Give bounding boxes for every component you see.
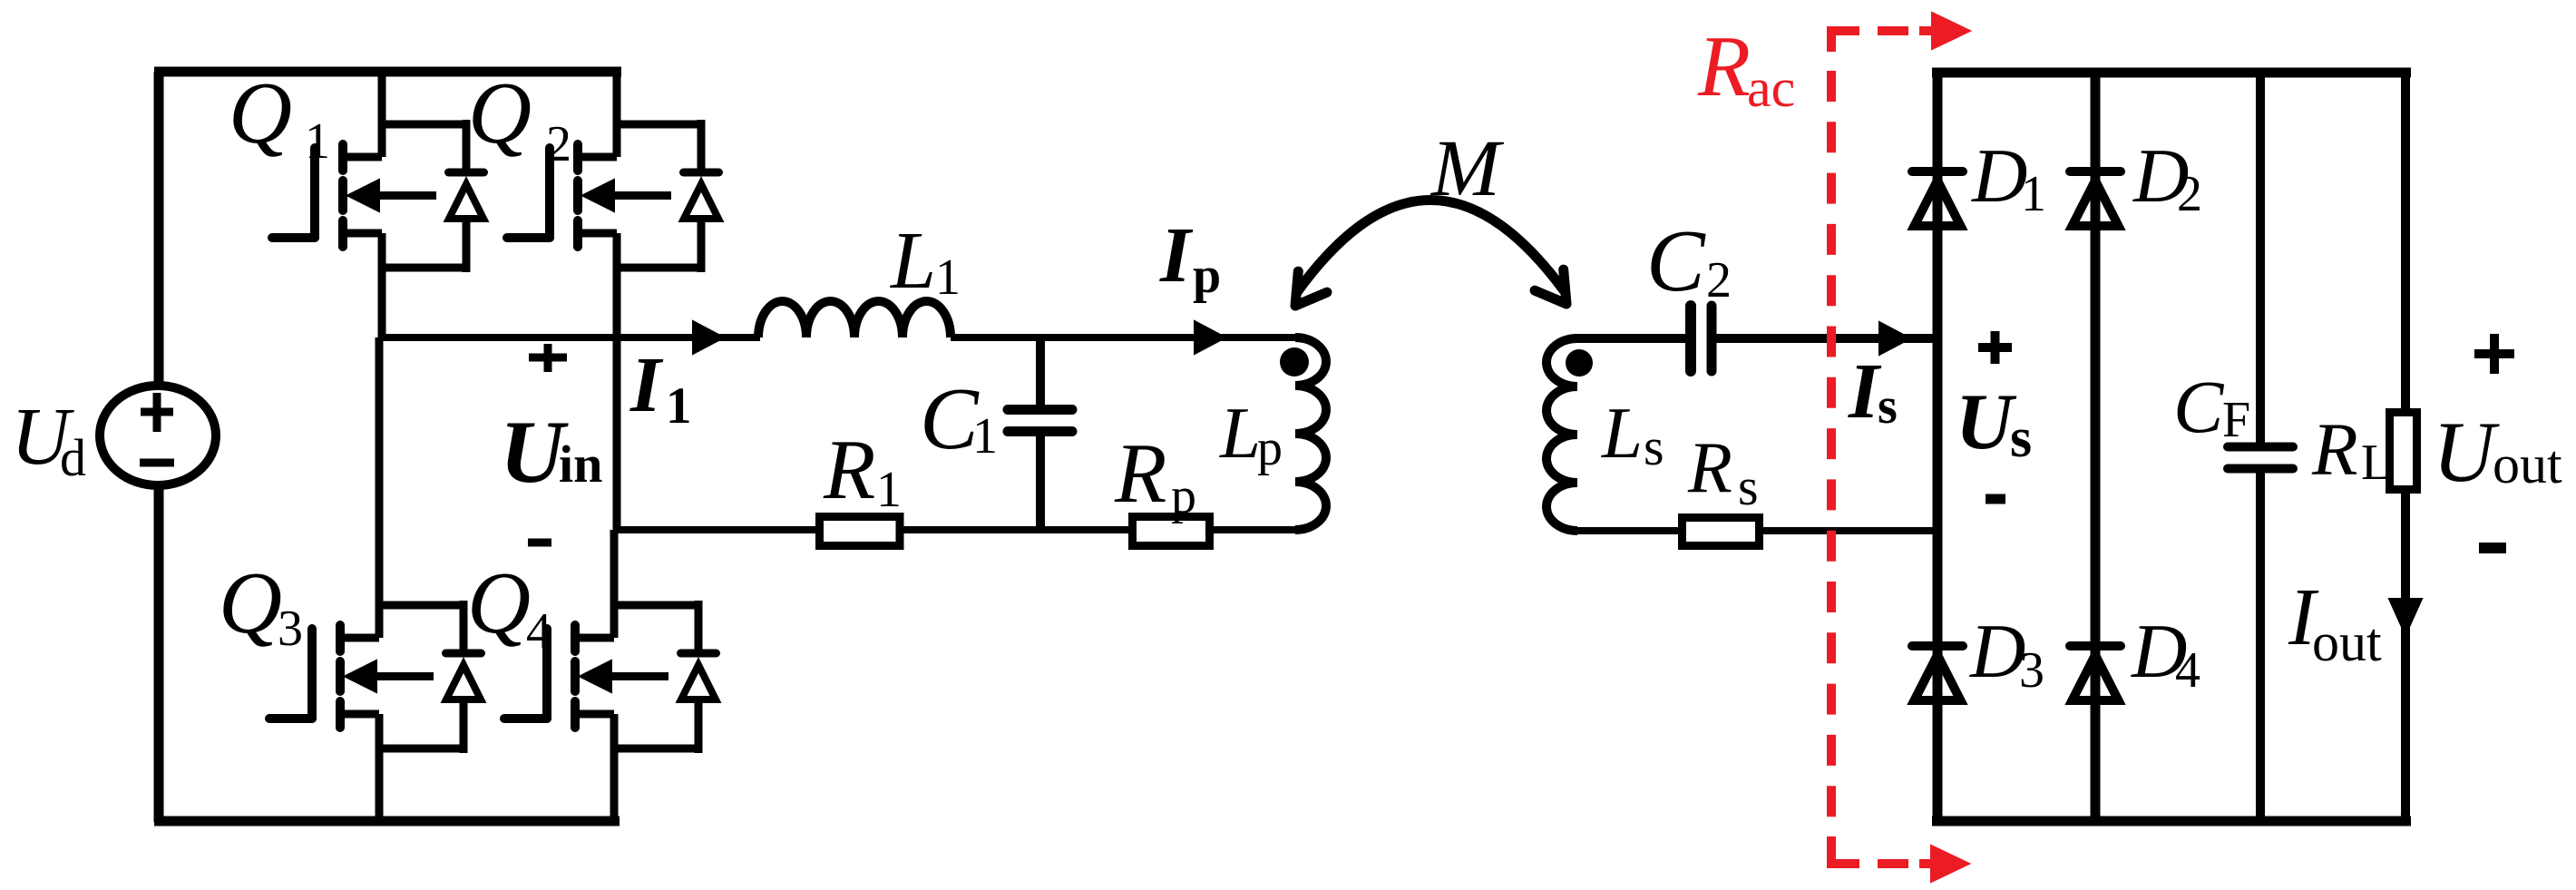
wire transistor Q1 source vertical bbox=[378, 233, 386, 337]
transistor Q4 channel dash drain bbox=[571, 625, 580, 651]
resistor RL bbox=[2390, 413, 2417, 490]
transistor Q1 body arrow bbox=[347, 180, 379, 211]
wire CF leg lower bbox=[2256, 471, 2265, 821]
svg-text:1: 1 bbox=[2021, 166, 2046, 222]
svg-text:1: 1 bbox=[305, 113, 330, 170]
svg-text:p: p bbox=[1257, 420, 1283, 476]
svg-text:C: C bbox=[920, 370, 980, 467]
svg-text:s: s bbox=[1738, 457, 1759, 516]
inductor L1 bbox=[758, 301, 951, 337]
wire transistor Q2 body-diode upper lead bbox=[698, 120, 706, 172]
wire transistor Q1 body-diode lower lead bbox=[463, 217, 471, 272]
transistor Q4 gate bar bbox=[542, 629, 551, 719]
Rac dashed boundary vertical bbox=[1827, 71, 1836, 836]
svg-text:1: 1 bbox=[935, 249, 961, 306]
transistor Q2 channel dash body bbox=[573, 181, 582, 210]
Uout minus sign bbox=[2479, 543, 2506, 553]
Ls polarity dot bbox=[1566, 349, 1593, 377]
transistor Q1 channel dash source bbox=[338, 220, 347, 247]
svg-text:D: D bbox=[1969, 609, 2025, 694]
wire transistor Q1 drain lead bbox=[339, 153, 382, 161]
wire CF leg upper bbox=[2256, 73, 2265, 445]
svg-text:R: R bbox=[823, 423, 875, 517]
svg-text:U: U bbox=[2433, 404, 2500, 500]
svg-text:U: U bbox=[1956, 378, 2017, 466]
Uin plus sign bbox=[529, 354, 567, 362]
wire rectifier leg 2 (D2/D4) bbox=[2091, 73, 2101, 821]
svg-text:F: F bbox=[2222, 392, 2250, 448]
svg-text:I: I bbox=[629, 340, 664, 428]
resistor R1 bbox=[820, 517, 901, 546]
diode D3 cathode bar bbox=[1912, 641, 1963, 650]
wire transistor Q4 drain lead bbox=[571, 634, 614, 642]
transistor Q3 body arrow bbox=[345, 660, 376, 692]
wire left vertical upper (Ud to top rail) bbox=[154, 72, 164, 390]
transistor Q2 body diode cathode bar bbox=[684, 169, 719, 177]
wire transistor Q4 body-diode upper lead bbox=[695, 601, 703, 653]
resistor Rs bbox=[1683, 518, 1760, 546]
transistor Q3 body diode cathode bar bbox=[446, 650, 482, 658]
wire transistor Q4 body-diode loop top bbox=[614, 601, 698, 610]
svg-text:out: out bbox=[2493, 435, 2562, 494]
svg-text:s: s bbox=[1878, 378, 1898, 435]
wire transistor Q2 body-diode lower lead bbox=[698, 217, 706, 272]
Lp polarity dot bbox=[1280, 347, 1309, 377]
wire rectifier bottom rail bbox=[1932, 817, 2411, 826]
wire mid rail left segment (Uin+ node to L1) bbox=[382, 334, 760, 341]
wire transistor Q2 body-diode loop bottom bbox=[617, 264, 701, 272]
transistor Q4 body arrow bbox=[580, 660, 611, 692]
resistor Rp bbox=[1133, 517, 1210, 546]
svg-text:d: d bbox=[60, 428, 86, 487]
wire transistor Q4 source lead bbox=[571, 710, 614, 719]
Us minus sign bbox=[1986, 494, 2005, 504]
wire secondary top rail left (Ls to C2) bbox=[1577, 334, 1687, 343]
diode D2 triangle bbox=[2073, 181, 2119, 226]
wire transistor Q4 source vertical bbox=[610, 714, 619, 821]
svg-text:Q: Q bbox=[468, 64, 532, 161]
wire rectifier top rail bbox=[1932, 68, 2411, 78]
wire transistor Q1 body-diode loop bottom bbox=[382, 264, 466, 272]
svg-text:in: in bbox=[559, 435, 602, 494]
svg-text:p: p bbox=[1193, 248, 1221, 304]
svg-text:C: C bbox=[2173, 365, 2225, 448]
svg-text:3: 3 bbox=[2019, 642, 2044, 699]
wire RL leg bbox=[2401, 73, 2410, 821]
wire transistor Q4 body-diode loop bottom bbox=[614, 745, 698, 753]
mutual arc left arrowhead bbox=[1295, 271, 1327, 306]
svg-text:R: R bbox=[1114, 426, 1166, 521]
transistor Q4 body diode cathode bar bbox=[681, 650, 717, 658]
Rac dashed boundary bottom arrow bbox=[1878, 859, 1908, 868]
wire transistor Q4 body-diode lower lead bbox=[695, 698, 703, 753]
diode D1 cathode bar bbox=[1912, 167, 1963, 176]
svg-text:Q: Q bbox=[229, 64, 292, 161]
transistor Q1 channel dash drain bbox=[338, 144, 347, 171]
diode D4 cathode bar bbox=[2070, 641, 2121, 650]
capacitor C1 bbox=[1008, 405, 1072, 415]
capacitor CF bbox=[2228, 443, 2293, 452]
wire transistor Q1 drain vertical bbox=[378, 72, 386, 157]
transistor Q3 gate bar bbox=[307, 629, 317, 719]
wire transistor Q3 body-diode upper lead bbox=[460, 601, 468, 653]
diode D2 cathode bar bbox=[2070, 167, 2121, 176]
transistor Q4 body diode triangle bbox=[681, 665, 716, 699]
wire transistor Q2 drain lead bbox=[574, 153, 617, 161]
svg-text:4: 4 bbox=[526, 603, 551, 660]
wire transistor Q3 body-diode lower lead bbox=[460, 698, 468, 753]
wire transistor Q3 source vertical bbox=[376, 714, 384, 821]
wire transistor Q2 source vertical bbox=[613, 233, 621, 530]
transistor Q3 body diode triangle bbox=[446, 665, 481, 699]
svg-text:L: L bbox=[889, 216, 936, 306]
svg-text:1: 1 bbox=[666, 377, 692, 435]
transistor Q3 channel dash source bbox=[336, 701, 345, 728]
wire secondary top rail right (C2 to rectifier) bbox=[1715, 334, 1937, 343]
wire transistor Q2 drain vertical bbox=[613, 72, 621, 157]
transistor Q2 channel dash drain bbox=[573, 144, 582, 171]
svg-text:2: 2 bbox=[2177, 166, 2202, 222]
svg-text:3: 3 bbox=[278, 601, 303, 657]
Ud minus sign bbox=[140, 459, 174, 467]
svg-text:C: C bbox=[1646, 212, 1706, 309]
svg-text:Q: Q bbox=[467, 554, 531, 651]
arrow Is current bbox=[1879, 322, 1910, 355]
wire transistor Q1 source lead bbox=[339, 230, 382, 238]
transistor Q1 body diode cathode bar bbox=[449, 169, 484, 177]
capacitor C2 bbox=[1685, 306, 1696, 371]
transistor Q4 channel dash source bbox=[571, 701, 580, 728]
transistor Q3 channel dash drain bbox=[336, 625, 345, 651]
Rac dashed boundary top corner bbox=[1831, 31, 1859, 52]
transistor Q1 gate bar bbox=[310, 148, 319, 238]
svg-text:R: R bbox=[1687, 428, 1732, 508]
svg-text:2: 2 bbox=[546, 116, 571, 172]
Ud plus sign bbox=[141, 408, 173, 416]
Uout plus sign bbox=[2474, 349, 2514, 358]
svg-text:M: M bbox=[1429, 124, 1505, 213]
svg-text:out: out bbox=[2312, 612, 2382, 672]
inductor Lp coil bbox=[1295, 337, 1326, 530]
Uin minus sign bbox=[528, 539, 551, 547]
transistor Q1 body diode triangle bbox=[449, 184, 483, 219]
wire bottom rail (inverter) bbox=[154, 817, 620, 826]
wire C1 upper stem bbox=[1036, 337, 1045, 406]
wire transistor Q2 body-diode loop top bbox=[617, 121, 701, 129]
wire C1 lower stem bbox=[1036, 435, 1045, 530]
svg-text:R: R bbox=[2311, 407, 2358, 491]
diode D3 triangle bbox=[1915, 655, 1961, 700]
wire transistor Q4 drain vertical bbox=[610, 530, 619, 638]
svg-text:D: D bbox=[1971, 133, 2027, 219]
wire transistor Q3 gate lead bbox=[269, 714, 312, 723]
wire transistor Q1 gate lead bbox=[272, 233, 315, 242]
transistor Q3 channel dash body bbox=[336, 661, 345, 691]
wire transistor Q4 gate lead bbox=[504, 714, 547, 723]
transistor Q2 body arrow bbox=[582, 180, 614, 211]
inductor Ls coil bbox=[1547, 338, 1577, 531]
mutual arc right arrowhead bbox=[1535, 269, 1566, 304]
wire transistor Q2 source lead bbox=[574, 230, 617, 238]
wire transistor Q2 gate lead bbox=[507, 233, 550, 242]
diode D4 triangle bbox=[2073, 655, 2119, 700]
svg-text:4: 4 bbox=[2175, 642, 2200, 699]
Us plus sign bbox=[1978, 343, 2012, 352]
wire transistor Q1 body-diode upper lead bbox=[463, 120, 471, 172]
svg-text:s: s bbox=[1644, 417, 1664, 476]
wire mid rail right segment (L1 to Lp) bbox=[951, 334, 1295, 341]
wire top rail (inverter) bbox=[154, 67, 621, 77]
wire lower rail (Uin- node to Lp bottom) bbox=[616, 526, 1295, 533]
svg-text:L: L bbox=[1219, 392, 1261, 474]
transistor Q2 body diode triangle bbox=[684, 184, 718, 219]
svg-text:2: 2 bbox=[1706, 252, 1732, 308]
wire transistor Q3 body-diode loop top bbox=[379, 601, 463, 610]
wire secondary bottom rail (Ls to rectifier) bbox=[1577, 527, 1937, 534]
Rac dashed boundary top arrow bbox=[1878, 26, 1908, 35]
mutual coupling arc M bbox=[1297, 200, 1564, 292]
svg-text:R: R bbox=[1697, 18, 1751, 114]
wire transistor Q3 body-diode loop bottom bbox=[379, 745, 463, 753]
voltage source Ud circle bbox=[100, 386, 216, 485]
svg-text:s: s bbox=[2010, 407, 2032, 469]
svg-text:ac: ac bbox=[1747, 58, 1795, 118]
transistor Q4 channel dash body bbox=[571, 661, 580, 691]
transistor Q2 channel dash source bbox=[573, 220, 582, 247]
wire transistor Q3 drain lead bbox=[337, 634, 379, 642]
svg-text:I: I bbox=[1159, 210, 1194, 298]
diode D1 triangle bbox=[1915, 181, 1961, 226]
svg-text:L: L bbox=[2361, 435, 2392, 491]
wire transistor Q3 drain vertical bbox=[376, 337, 384, 638]
wire left vertical lower (Ud to bottom rail) bbox=[154, 481, 164, 822]
svg-text:1: 1 bbox=[972, 408, 998, 465]
wire transistor Q1 body-diode loop top bbox=[382, 121, 466, 129]
svg-text:L: L bbox=[1601, 392, 1643, 474]
wire transistor Q3 source lead bbox=[337, 710, 379, 719]
svg-text:Q: Q bbox=[219, 554, 282, 651]
transistor Q2 gate bar bbox=[545, 148, 554, 238]
arrow I1 current bbox=[693, 321, 724, 354]
svg-text:p: p bbox=[1171, 468, 1196, 524]
transistor Q1 channel dash body bbox=[338, 181, 347, 210]
svg-text:1: 1 bbox=[876, 462, 902, 518]
arrow Iout current bbox=[2389, 599, 2422, 635]
Rac dashed boundary bottom corner bbox=[1831, 836, 1859, 864]
arrow Ip current bbox=[1195, 321, 1225, 354]
wire rectifier leg 1 (D1/D3) bbox=[1933, 73, 1943, 821]
